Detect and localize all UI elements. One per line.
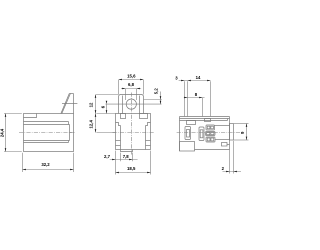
top-left step notch (24, 114, 37, 118)
center pin terminal (185, 127, 191, 140)
lug mounting hole (126, 99, 136, 109)
dimension 12 (88, 95, 118, 114)
inner barrel lines (24, 122, 72, 143)
bottom extension lines front view (116, 151, 151, 175)
body outline left view (24, 114, 74, 152)
dimension 32,2 (23, 153, 74, 172)
inner wall lines (121, 126, 146, 150)
svg-text:2,7: 2,7 (104, 154, 111, 159)
svg-text:12: 12 (88, 102, 93, 107)
right terminal 3 (206, 137, 215, 142)
dimension 5,2 (144, 88, 162, 104)
svg-text:7,8: 7,8 (123, 154, 130, 159)
centerline right view (177, 132, 242, 134)
slot A (187, 121, 196, 125)
dimension 9 (234, 124, 249, 141)
svg-text:5,2: 5,2 (154, 88, 159, 95)
horizontal centerline front view (113, 132, 155, 134)
bottom-left block (180, 142, 195, 152)
dimension 6 (100, 101, 107, 114)
bottom base step (121, 150, 133, 152)
svg-text:12,4: 12,4 (88, 120, 93, 129)
front body outline (116, 114, 151, 150)
vertical centerline front view (130, 93, 132, 155)
small tab (222, 143, 230, 147)
left edge (179, 117, 181, 152)
side notches (116, 141, 151, 146)
dimension 12,4 (88, 114, 115, 133)
right terminal 2 (206, 132, 216, 136)
svg-text:6,8: 6,8 (128, 82, 135, 87)
svg-text:24,4: 24,4 (0, 128, 5, 137)
svg-text:15,6: 15,6 (127, 74, 136, 79)
centerline left view (19, 132, 75, 134)
mounting lug face-on (119, 95, 144, 114)
top edge lines (180, 117, 230, 121)
right terminal 1 (206, 125, 215, 130)
upper-right stair (146, 123, 151, 126)
dimension 15,6 (119, 74, 144, 95)
dimension 18,5 (116, 166, 151, 173)
middle terminal (199, 127, 204, 141)
terminal stubs (215, 126, 230, 140)
right edge (228, 117, 230, 150)
dimension 2 (222, 141, 241, 174)
lug feet through body (121, 114, 148, 119)
bottom edge (195, 149, 230, 151)
hole horizontal extension line (105, 103, 161, 105)
front flange (230, 124, 234, 141)
dimension 24,4 (0, 114, 22, 152)
svg-text:32,2: 32,2 (41, 162, 50, 167)
dimensions 2,7 and 7,8 (104, 154, 138, 160)
dimension 8 (184, 92, 205, 117)
upper-left stair (116, 123, 121, 126)
dimension 6,8 (121, 82, 141, 100)
solder lug edge-on tab (61, 94, 78, 114)
dimensions 3 and 14 (175, 75, 210, 116)
svg-text:18,5: 18,5 (127, 166, 136, 171)
svg-text:14: 14 (196, 75, 201, 80)
slot B (205, 119, 211, 122)
